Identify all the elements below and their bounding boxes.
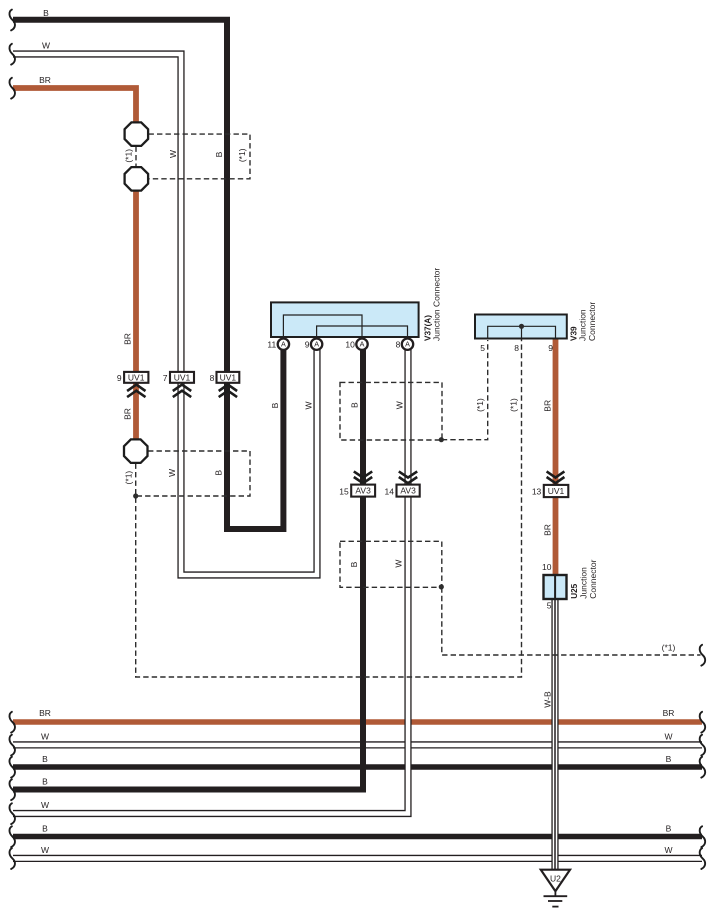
svg-text:B: B: [214, 470, 224, 476]
wire B from V37(A) pin 10 through 15 AV3 to B bus row: [13, 348, 363, 790]
svg-text:B: B: [42, 824, 48, 834]
svg-text:BR: BR: [123, 333, 133, 345]
svg-text:BR: BR: [39, 708, 51, 718]
V37(A) pin 8: [396, 339, 414, 350]
connector 9 UV1: [117, 372, 149, 383]
wire B bus row (third): [13, 764, 702, 770]
connector 14 AV3: [385, 485, 420, 497]
svg-text:5: 5: [547, 601, 552, 611]
svg-text:B: B: [349, 561, 359, 567]
svg-text:9: 9: [548, 343, 553, 353]
connector octagon third (*1): [124, 439, 148, 463]
svg-text:UV1: UV1: [128, 372, 145, 382]
dashed wire (*1) from third octagon to V39 pin 8: [136, 340, 522, 678]
dashed wire (*1) from lower dashed box to right edge: [442, 587, 701, 655]
svg-text:BR: BR: [543, 400, 553, 412]
bus wire labels right: [663, 708, 675, 855]
svg-text:A: A: [405, 340, 410, 349]
wire W bus row (seventh): [13, 855, 702, 862]
svg-text:W: W: [168, 150, 178, 158]
svg-text:Connector: Connector: [588, 559, 598, 598]
label U25 Junction Connector: [570, 559, 598, 598]
connector 13 UV1: [532, 485, 568, 497]
wire BR between 9 UV1 and third octagon: [133, 381, 139, 442]
junction dot upper dashed box: [439, 437, 444, 442]
dashed wire (*1) from upper dashed box to V39 pin 5: [442, 340, 488, 440]
wire BR between lower octagon and 9 UV1: [133, 189, 139, 379]
svg-text:A: A: [360, 340, 365, 349]
label V39 Junction Connector: [570, 302, 598, 341]
wire break marks bus right: [700, 712, 705, 869]
svg-text:10: 10: [542, 562, 552, 572]
connector 7 UV1: [163, 372, 194, 383]
svg-text:BR: BR: [663, 708, 675, 718]
svg-text:9: 9: [305, 340, 310, 350]
dashed box right of third octagon: [136, 451, 250, 496]
dashed link (*1) between upper octagons: [135, 147, 137, 167]
connector octagon second (*1): [125, 167, 149, 191]
svg-text:AV3: AV3: [355, 486, 371, 496]
junction connector U25: [544, 575, 567, 599]
svg-text:W-B: W-B: [543, 691, 553, 708]
twisted pair marker above 13 UV1: [547, 471, 565, 483]
svg-text:W: W: [304, 401, 314, 409]
connector 15 AV3: [339, 485, 375, 497]
twisted pair marker above 15 AV3: [354, 471, 372, 483]
svg-text:B: B: [214, 151, 224, 157]
wire BR bus row bottom: [13, 719, 702, 724]
wire break marks top left: [9, 10, 14, 99]
wire W from V37(A) pin 8 through 14 AV3 to W bus row: [13, 348, 408, 814]
wire W from top left through 7 UV1 to V37(A) pin 9: [13, 54, 317, 575]
wire W-B from U25 pin 5 to ground U2: [551, 597, 558, 869]
svg-text:B: B: [43, 8, 49, 18]
ground U2: [541, 870, 570, 907]
twisted pair marker below 9 UV1: [127, 385, 145, 398]
svg-text:U2: U2: [550, 874, 561, 884]
U25 pin numbers 10 5: [542, 562, 552, 611]
dashed box around AV3 wires lower: [340, 541, 442, 587]
svg-text:W: W: [41, 845, 49, 855]
svg-text:UV1: UV1: [174, 372, 191, 382]
svg-text:A: A: [314, 340, 319, 349]
svg-text:BR: BR: [123, 408, 133, 420]
svg-text:5: 5: [480, 343, 485, 353]
svg-text:B: B: [666, 824, 672, 834]
svg-text:8: 8: [514, 343, 519, 353]
wire B from top left through 8 UV1 to V37(A) pin 11: [13, 20, 283, 529]
svg-text:BR: BR: [543, 524, 553, 536]
connector 8 UV1: [210, 372, 240, 383]
junction connector V39: [475, 315, 567, 339]
svg-text:(*1): (*1): [124, 149, 134, 163]
svg-text:8: 8: [210, 373, 215, 383]
svg-text:W: W: [167, 469, 177, 477]
svg-text:B: B: [42, 777, 48, 787]
svg-text:11: 11: [267, 340, 276, 350]
svg-text:8: 8: [396, 340, 401, 350]
svg-text:B: B: [349, 402, 359, 408]
wire B bus row (sixth): [13, 834, 702, 840]
svg-text:A: A: [281, 340, 286, 349]
svg-text:9: 9: [117, 373, 122, 383]
svg-text:(*1): (*1): [508, 398, 518, 412]
svg-text:10: 10: [345, 340, 355, 350]
svg-text:W: W: [41, 800, 49, 810]
junction dot lower dashed box: [439, 584, 444, 589]
svg-text:W: W: [394, 560, 404, 568]
bus wire labels left: [39, 708, 51, 855]
dashed box right of upper octagons: [149, 134, 251, 179]
svg-text:14: 14: [385, 487, 395, 497]
svg-text:(*1): (*1): [475, 398, 485, 412]
svg-text:UV1: UV1: [548, 486, 565, 496]
wire BR from top left to octagon connector: [13, 88, 136, 126]
svg-text:W: W: [395, 401, 405, 409]
svg-text:B: B: [270, 402, 280, 408]
svg-text:Connector: Connector: [587, 302, 597, 341]
svg-text:(*1): (*1): [124, 471, 134, 485]
junction dot on dashed wire: [133, 493, 138, 498]
svg-text:AV3: AV3: [400, 486, 416, 496]
svg-text:W: W: [41, 732, 49, 742]
svg-text:7: 7: [163, 373, 168, 383]
svg-text:B: B: [42, 754, 48, 764]
svg-text:(*1): (*1): [662, 642, 676, 652]
wire break marks bus left: [9, 712, 14, 869]
wire W bus row (second): [13, 741, 702, 748]
twisted pair marker below 7 UV1: [173, 385, 191, 398]
wire break mark on dashed (*1) wire: [700, 645, 705, 666]
junction connector V37(A): [271, 302, 419, 337]
wire BR from V39 pin 9 through 13 UV1 to U25 pin 10: [553, 337, 559, 577]
svg-text:W: W: [664, 732, 672, 742]
svg-text:(*1): (*1): [237, 148, 247, 162]
svg-text:UV1: UV1: [220, 372, 237, 382]
V39 pin numbers 5 8 9: [480, 343, 553, 353]
V37(A) pin 10: [345, 339, 367, 350]
svg-text:15: 15: [339, 487, 349, 497]
svg-text:BR: BR: [39, 75, 51, 85]
dashed box around AV3 wires upper: [340, 382, 442, 440]
svg-text:W: W: [42, 41, 50, 51]
label V37(A) Junction Connector: [423, 268, 441, 341]
svg-text:U25: U25: [570, 583, 579, 598]
connector octagon upper (*1): [125, 122, 149, 145]
svg-text:13: 13: [532, 487, 542, 497]
twisted pair marker below 8 UV1: [219, 385, 237, 398]
svg-text:W: W: [664, 845, 672, 855]
svg-text:Junction: Junction: [578, 309, 588, 341]
V37(A) pin 9: [305, 339, 323, 350]
V37(A) pin 11: [267, 339, 289, 350]
twisted pair marker above 14 AV3: [399, 471, 417, 483]
svg-text:B: B: [666, 754, 672, 764]
svg-text:Junction Connector: Junction Connector: [431, 268, 441, 341]
